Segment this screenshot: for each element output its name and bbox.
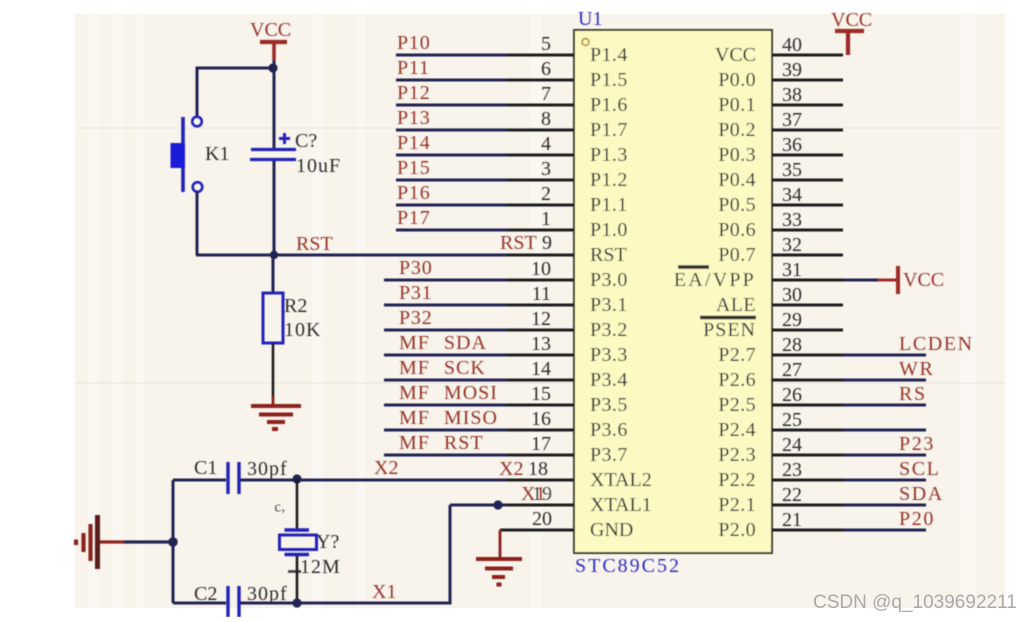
resistor R2 bbox=[263, 293, 283, 343]
svg-text:P2.4: P2.4 bbox=[718, 419, 756, 441]
svg-text:P2.6: P2.6 bbox=[718, 369, 756, 391]
svg-text:X2: X2 bbox=[499, 458, 523, 480]
stray dash mark left of 12M bbox=[288, 570, 301, 573]
wire net P23 from pin 24 bbox=[843, 454, 926, 457]
svg-text:27: 27 bbox=[782, 359, 802, 381]
pin 4 stub of U1 (P1.3) bbox=[507, 154, 574, 157]
svg-text:6: 6 bbox=[541, 58, 551, 80]
wire common leg C1 to C2 bbox=[172, 480, 175, 603]
pin 17 stub of U1 (P3.7) bbox=[507, 454, 574, 457]
pin 19 stub of U1 (XTAL1) bbox=[507, 504, 574, 507]
svg-text:P2.1: P2.1 bbox=[718, 494, 756, 516]
wire net P11 (left row pin 6) bbox=[396, 79, 507, 82]
svg-text:40: 40 bbox=[782, 34, 802, 56]
svg-text:3: 3 bbox=[541, 158, 551, 180]
wire net P30 (left row pin 10) bbox=[384, 279, 507, 282]
svg-text:C1: C1 bbox=[194, 457, 217, 479]
svg-text:17: 17 bbox=[531, 433, 551, 455]
pin 13 stub of U1 (P3.3) bbox=[507, 354, 574, 357]
svg-text:LCDEN: LCDEN bbox=[899, 333, 974, 355]
pin 10 stub of U1 (P3.0) bbox=[507, 279, 574, 282]
wire left into C1 bbox=[173, 479, 226, 482]
svg-text:SDA: SDA bbox=[899, 483, 944, 505]
wire net MF MOSI (left row pin 15) bbox=[384, 404, 507, 407]
svg-text:P3.6: P3.6 bbox=[590, 419, 628, 441]
svg-text:VCC: VCC bbox=[250, 19, 291, 41]
pin 16 stub of U1 (P3.6) bbox=[507, 429, 574, 432]
svg-text:CSDN @q_1039692211: CSDN @q_1039692211 bbox=[813, 592, 1017, 613]
pin 18 stub of U1 (XTAL2) bbox=[507, 479, 574, 482]
svg-text:P3.7: P3.7 bbox=[590, 444, 628, 466]
plus sign of C? bbox=[279, 133, 290, 144]
node A junction (VCC/K1/C?) bbox=[268, 63, 277, 72]
svg-text:XTAL2: XTAL2 bbox=[590, 469, 652, 491]
junction X1 node at crystal bottom bbox=[292, 598, 301, 607]
svg-text:P3.3: P3.3 bbox=[590, 344, 628, 366]
svg-text:P0.6: P0.6 bbox=[718, 219, 756, 241]
svg-text:P1.1: P1.1 bbox=[590, 194, 628, 216]
wire net SDA from pin 22 bbox=[843, 504, 926, 507]
svg-text:23: 23 bbox=[782, 459, 802, 481]
svg-text:34: 34 bbox=[782, 184, 802, 206]
pushbutton K1 bbox=[171, 117, 203, 192]
pin 5 stub of U1 (P1.4) bbox=[507, 54, 574, 57]
svg-text:P0.2: P0.2 bbox=[718, 119, 756, 141]
svg-text:P1.3: P1.3 bbox=[590, 144, 628, 166]
svg-text:P2.5: P2.5 bbox=[718, 394, 756, 416]
wire left into C2 bbox=[173, 602, 226, 605]
wire C2 to X1 net and up to pin 19 bbox=[240, 505, 450, 603]
svg-text:ALE: ALE bbox=[716, 294, 756, 316]
wire net P16 (left row pin 2) bbox=[396, 204, 507, 207]
pin 35 stub of U1 (P0.4) bbox=[772, 179, 843, 182]
svg-text:P2.7: P2.7 bbox=[718, 344, 756, 366]
wire R2 to ground bbox=[272, 343, 275, 398]
wire net MF SCK (left row pin 14) bbox=[384, 379, 507, 382]
junction X2 node at crystal top bbox=[292, 474, 301, 483]
wire net MF RST (left row pin 17) bbox=[384, 454, 507, 457]
ground symbol left of crystal (rotated) bbox=[76, 515, 98, 569]
IC U1 STC89C52 body bbox=[574, 30, 772, 553]
svg-text:VCC: VCC bbox=[831, 9, 872, 31]
svg-text:P0.0: P0.0 bbox=[718, 69, 756, 91]
pin 33 stub of U1 (P0.6) bbox=[772, 229, 843, 232]
svg-text:K1: K1 bbox=[205, 143, 229, 165]
svg-text:P0.3: P0.3 bbox=[718, 144, 756, 166]
svg-text:MF SDA: MF SDA bbox=[399, 332, 487, 354]
junction on C1/C2 common leg bbox=[168, 537, 178, 547]
svg-text:28: 28 bbox=[782, 334, 802, 356]
pin 1 stub of U1 (P1.0) bbox=[507, 229, 574, 232]
svg-text:36: 36 bbox=[782, 134, 802, 156]
pin 34 stub of U1 (P0.5) bbox=[772, 204, 843, 207]
svg-text:P2.0: P2.0 bbox=[718, 519, 756, 541]
svg-text:24: 24 bbox=[782, 434, 802, 456]
svg-text:38: 38 bbox=[782, 84, 802, 106]
svg-text:P3.0: P3.0 bbox=[590, 269, 628, 291]
pin 29 stub of U1 (PSEN) bbox=[772, 329, 843, 332]
pin 15 stub of U1 (P3.5) bbox=[507, 404, 574, 407]
svg-text:39: 39 bbox=[782, 59, 802, 81]
wire net X1 horizontal into U1 pin 19 bbox=[450, 504, 507, 507]
svg-text:RST: RST bbox=[296, 233, 333, 255]
VCC power symbol at pin 40 bbox=[835, 31, 864, 55]
pin 11 stub of U1 (P3.1) bbox=[507, 304, 574, 307]
svg-text:30: 30 bbox=[782, 284, 802, 306]
pin 21 stub of U1 (P2.0) bbox=[772, 529, 843, 532]
svg-text:P13: P13 bbox=[397, 107, 431, 129]
wire C1 to X2 junction bbox=[240, 479, 297, 482]
pin 37 stub of U1 (P0.2) bbox=[772, 129, 843, 132]
wire node A to K1 top bbox=[197, 68, 274, 117]
svg-text:U1: U1 bbox=[578, 8, 602, 30]
capacitor C? (polarized) bbox=[250, 150, 296, 160]
svg-text:C2: C2 bbox=[194, 583, 217, 605]
svg-text:37: 37 bbox=[782, 109, 802, 131]
svg-text:13: 13 bbox=[531, 333, 551, 355]
wire net P12 (left row pin 7) bbox=[396, 104, 507, 107]
svg-text:XTAL1: XTAL1 bbox=[590, 494, 652, 516]
svg-text:P1.2: P1.2 bbox=[590, 169, 628, 191]
svg-text:P0.1: P0.1 bbox=[718, 94, 756, 116]
svg-text:10K: 10K bbox=[284, 319, 321, 341]
svg-text:P23: P23 bbox=[899, 433, 935, 455]
pin-1 marker circle inside U1 bbox=[582, 39, 589, 46]
svg-text:35: 35 bbox=[782, 159, 802, 181]
pin 30 stub of U1 (ALE) bbox=[772, 304, 843, 307]
wire K1 bottom to RST net bbox=[196, 192, 199, 255]
svg-text:VCC: VCC bbox=[715, 44, 756, 66]
wire net X2 from crystal to U1 pin 18 bbox=[297, 479, 507, 482]
pin 22 stub of U1 (P2.1) bbox=[772, 504, 843, 507]
pin 28 stub of U1 (P2.7) bbox=[772, 354, 843, 357]
svg-text:P1.7: P1.7 bbox=[590, 119, 628, 141]
RST node junction bbox=[270, 251, 278, 259]
pin 31 stub of U1 (EA/VPP) bbox=[772, 279, 843, 282]
wire net P13 (left row pin 8) bbox=[396, 129, 507, 132]
svg-text:P0.7: P0.7 bbox=[718, 244, 756, 266]
svg-text:18: 18 bbox=[528, 458, 548, 480]
pin 38 stub of U1 (P0.1) bbox=[772, 104, 843, 107]
svg-text:12: 12 bbox=[531, 308, 551, 330]
wire net SCL from pin 23 bbox=[843, 479, 926, 482]
svg-text:P16: P16 bbox=[397, 182, 431, 204]
pin 12 stub of U1 (P3.2) bbox=[507, 329, 574, 332]
svg-text:25: 25 bbox=[782, 409, 802, 431]
svg-text:4: 4 bbox=[541, 133, 551, 155]
svg-text:P31: P31 bbox=[399, 282, 433, 304]
pin 27 stub of U1 (P2.6) bbox=[772, 379, 843, 382]
svg-text:P30: P30 bbox=[399, 257, 433, 279]
svg-text:P0.4: P0.4 bbox=[718, 169, 756, 191]
svg-text:26: 26 bbox=[782, 384, 802, 406]
crystal Y1 bbox=[280, 530, 317, 555]
svg-text:P14: P14 bbox=[397, 132, 431, 154]
svg-text:P12: P12 bbox=[397, 82, 431, 104]
wire net RS from pin 26 bbox=[843, 404, 926, 407]
svg-text:P17: P17 bbox=[397, 207, 431, 229]
wire net MF SDA (left row pin 13) bbox=[384, 354, 507, 357]
ground symbol at U1 GND pin bbox=[476, 559, 522, 585]
svg-text:P1.6: P1.6 bbox=[590, 94, 628, 116]
svg-text:8: 8 bbox=[541, 108, 551, 130]
pin 9 stub of U1 (RST) bbox=[507, 254, 574, 257]
capacitor C1 bbox=[228, 462, 239, 494]
svg-text:29: 29 bbox=[782, 309, 802, 331]
svg-text:P32: P32 bbox=[399, 307, 433, 329]
svg-text:30pf: 30pf bbox=[247, 458, 288, 480]
wire net MF MISO (left row pin 16) bbox=[384, 429, 507, 432]
svg-text:31: 31 bbox=[782, 259, 802, 281]
pin 23 stub of U1 (P2.2) bbox=[772, 479, 843, 482]
wire C? bottom to RST node bbox=[273, 161, 276, 255]
svg-text:10: 10 bbox=[531, 258, 551, 280]
svg-text:P11: P11 bbox=[397, 57, 430, 79]
svg-text:15: 15 bbox=[531, 383, 551, 405]
wire from pin 31 to VCC power symbol bbox=[843, 279, 878, 282]
svg-text:11: 11 bbox=[532, 283, 551, 305]
VCC power symbol top left bbox=[260, 42, 287, 60]
wire net RST from reset circuit to U1 pin 9 bbox=[196, 254, 507, 257]
wire net WR from pin 27 bbox=[843, 379, 926, 382]
wire net unconnected from pin 25 bbox=[843, 429, 926, 432]
pin 6 stub of U1 (P1.5) bbox=[507, 79, 574, 82]
svg-text:EA/VPP: EA/VPP bbox=[674, 269, 756, 291]
svg-text:5: 5 bbox=[541, 33, 551, 55]
svg-text:22: 22 bbox=[782, 484, 802, 506]
svg-text:X1: X1 bbox=[372, 581, 396, 603]
pin 36 stub of U1 (P0.3) bbox=[772, 154, 843, 157]
svg-text:1: 1 bbox=[541, 208, 551, 230]
svg-text:9: 9 bbox=[542, 232, 552, 254]
junction on X1 net at pin 19 bbox=[493, 500, 502, 509]
wire node A to capacitor C? bbox=[273, 68, 276, 148]
wire net P17 (left row pin 1) bbox=[396, 229, 507, 232]
svg-text:VCC: VCC bbox=[903, 269, 944, 291]
ground symbol below R2 bbox=[251, 406, 301, 429]
svg-text:MF MOSI: MF MOSI bbox=[399, 382, 498, 404]
svg-text:STC89C52: STC89C52 bbox=[575, 555, 681, 577]
svg-text:P3.4: P3.4 bbox=[590, 369, 628, 391]
pin 25 stub of U1 (P2.4) bbox=[772, 429, 843, 432]
VCC power symbol at pin 31 (rotated) bbox=[878, 266, 898, 294]
wire VCC to node A bbox=[273, 60, 276, 68]
svg-text:P15: P15 bbox=[397, 157, 431, 179]
svg-text:MF RST: MF RST bbox=[399, 432, 484, 454]
svg-text:SCL: SCL bbox=[899, 458, 940, 480]
wire net P10 (left row pin 5) bbox=[396, 54, 507, 57]
svg-text:2: 2 bbox=[541, 183, 551, 205]
pin 40 stub of U1 (VCC) bbox=[772, 54, 843, 57]
wire net P14 (left row pin 4) bbox=[396, 154, 507, 157]
svg-text:RST: RST bbox=[500, 232, 537, 254]
wire GND pin to ground symbol bbox=[499, 530, 502, 557]
pin 32 stub of U1 (P0.7) bbox=[772, 254, 843, 257]
svg-text:R2: R2 bbox=[284, 295, 307, 317]
svg-text:16: 16 bbox=[531, 408, 551, 430]
svg-text:Y?: Y? bbox=[316, 531, 339, 553]
svg-text:19: 19 bbox=[532, 483, 552, 505]
svg-text:10uF: 10uF bbox=[296, 155, 341, 177]
wire net P32 (left row pin 12) bbox=[384, 329, 507, 332]
svg-text:MF MISO: MF MISO bbox=[399, 407, 498, 429]
svg-text:c,: c, bbox=[273, 499, 286, 516]
svg-text:P3.5: P3.5 bbox=[590, 394, 628, 416]
pin 24 stub of U1 (P2.3) bbox=[772, 454, 843, 457]
svg-text:MF SCK: MF SCK bbox=[399, 357, 486, 379]
wire net P20 from pin 21 bbox=[843, 529, 926, 532]
svg-text:C?: C? bbox=[295, 130, 317, 152]
svg-text:20: 20 bbox=[532, 508, 552, 530]
pin 3 stub of U1 (P1.2) bbox=[507, 179, 574, 182]
svg-text:RST: RST bbox=[590, 244, 627, 266]
svg-text:P1.5: P1.5 bbox=[590, 69, 628, 91]
svg-text:32: 32 bbox=[782, 234, 802, 256]
wire net P15 (left row pin 3) bbox=[396, 179, 507, 182]
svg-text:P0.5: P0.5 bbox=[718, 194, 756, 216]
svg-text:33: 33 bbox=[782, 209, 802, 231]
svg-text:WR: WR bbox=[899, 358, 934, 380]
svg-text:14: 14 bbox=[531, 358, 551, 380]
svg-text:P2.3: P2.3 bbox=[718, 444, 756, 466]
svg-text:P10: P10 bbox=[397, 32, 431, 54]
wire X2 junction down to crystal bbox=[296, 479, 299, 529]
svg-text:P1.0: P1.0 bbox=[590, 219, 628, 241]
svg-text:12M: 12M bbox=[300, 556, 341, 578]
svg-text:P20: P20 bbox=[899, 508, 935, 530]
wire net P31 (left row pin 11) bbox=[384, 304, 507, 307]
svg-text:21: 21 bbox=[782, 509, 802, 531]
pin 2 stub of U1 (P1.1) bbox=[507, 204, 574, 207]
pin 14 stub of U1 (P3.4) bbox=[507, 379, 574, 382]
pin 26 stub of U1 (P2.5) bbox=[772, 404, 843, 407]
svg-text:PSEN: PSEN bbox=[703, 319, 756, 341]
svg-text:P3.1: P3.1 bbox=[590, 294, 628, 316]
capacitor C2 bbox=[228, 586, 239, 617]
pin 20 stub of U1 (GND) bbox=[500, 529, 574, 532]
svg-text:RS: RS bbox=[899, 383, 927, 405]
wire RST node down to R2 bbox=[272, 255, 275, 293]
pin 39 stub of U1 (P0.0) bbox=[772, 79, 843, 82]
wire ground to crystal net junction bbox=[100, 540, 124, 543]
pin 8 stub of U1 (P1.7) bbox=[507, 129, 574, 132]
pin 7 stub of U1 (P1.6) bbox=[507, 104, 574, 107]
svg-text:GND: GND bbox=[590, 519, 633, 541]
svg-text:7: 7 bbox=[541, 83, 551, 105]
svg-text:P1.4: P1.4 bbox=[590, 44, 628, 66]
svg-text:P2.2: P2.2 bbox=[718, 469, 756, 491]
svg-text:X2: X2 bbox=[374, 457, 398, 479]
svg-text:P3.2: P3.2 bbox=[590, 319, 628, 341]
wire crystal bottom to X1 junction bbox=[296, 556, 299, 603]
wire net LCDEN from pin 28 bbox=[843, 354, 926, 357]
